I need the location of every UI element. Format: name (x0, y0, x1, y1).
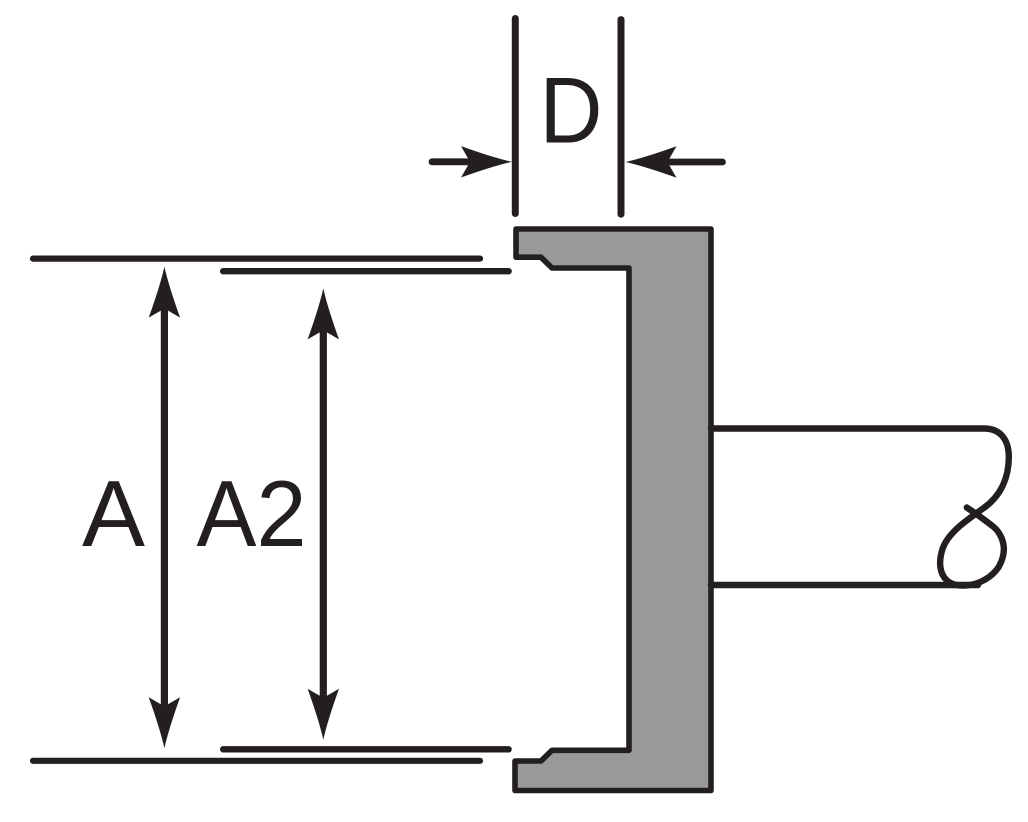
extension line A top (33, 256, 480, 262)
extension line A bottom (33, 758, 480, 764)
dimension arrow D left (points right) (432, 146, 512, 177)
svg-text:D: D (540, 58, 603, 163)
shaft bottom edge (711, 582, 978, 588)
shaft top edge with break curve (711, 429, 1009, 586)
extension line D right (618, 20, 625, 215)
svg-text:A: A (82, 461, 145, 566)
dimension arrow D right (points left) (626, 146, 723, 177)
part cross-section (gray C-channel cap) (515, 229, 711, 791)
extension line A2 bottom (223, 746, 508, 752)
svg-text:A2: A2 (197, 461, 307, 566)
extension line A2 top (223, 268, 508, 274)
dimension arrow A (vertical double-headed) (149, 267, 180, 749)
dimension arrow A2 (vertical double-headed) (308, 288, 339, 739)
extension line D left (512, 19, 519, 214)
